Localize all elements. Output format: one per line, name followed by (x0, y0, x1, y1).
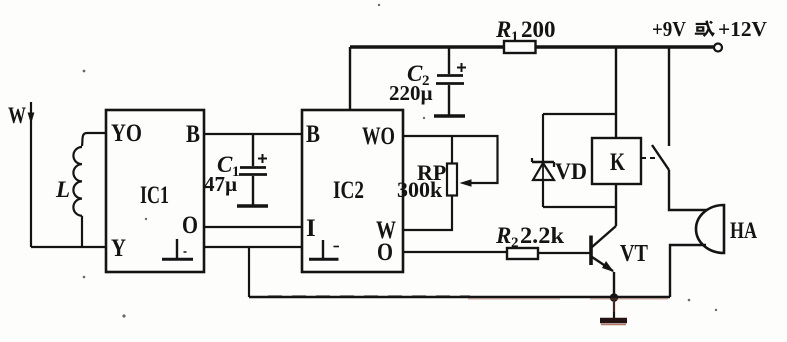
label IC2 pins (306, 121, 396, 266)
scan ghost above ground rail (268, 295, 470, 297)
wire: RP bottom to IC2 W pin (403, 196, 452, 230)
dashed link K to contact (641, 157, 658, 159)
scan specks (83, 4, 718, 318)
arrowhead on W input (28, 113, 35, 125)
relay coil K (592, 138, 641, 184)
wire: top +V rail (350, 45, 714, 48)
svg-text:47µ: 47µ (204, 172, 237, 196)
glyph: Chinese huo (or) (695, 21, 714, 36)
svg-text:Y: Y (111, 235, 126, 262)
wire: R2 to VT base (538, 252, 590, 254)
svg-text:L: L (55, 177, 70, 202)
svg-text:K: K (610, 149, 625, 176)
label R1 200 (495, 17, 556, 45)
wire: W line to Y pin (31, 246, 106, 248)
label L (55, 177, 70, 202)
potentiometer RP body (447, 164, 457, 196)
ground bar of C1 (237, 204, 268, 207)
svg-text:IC1: IC1 (140, 182, 169, 209)
capacitor C2 (436, 47, 464, 115)
svg-text:R: R (495, 223, 511, 248)
ground bar of C2 (434, 114, 465, 117)
svg-text:YO: YO (111, 120, 142, 147)
svg-text:R: R (495, 17, 511, 42)
ground (600, 297, 627, 325)
wire: IC1 O to IC2 I (204, 226, 302, 228)
terminal: +V supply (714, 44, 722, 52)
capacitor C1 (239, 134, 267, 205)
label W input (8, 103, 26, 128)
wire: K bottom to VT collector (615, 184, 617, 223)
ground pin symbol inside IC1 (162, 239, 193, 259)
scan tint on ground rail (468, 299, 668, 312)
svg-text:+12V: +12V (718, 17, 767, 41)
svg-text:200: 200 (521, 17, 556, 42)
wire: IC2 O to R2 (403, 251, 507, 253)
wire: rail down to IC2 top (349, 47, 351, 110)
polarity + of C1 (258, 154, 267, 163)
label C2 220u (389, 61, 433, 105)
wire: VD parallel loop top (543, 113, 616, 115)
svg-text:O: O (377, 239, 393, 266)
svg-text:2: 2 (511, 235, 519, 251)
svg-text:VD: VD (555, 159, 587, 184)
label RP 300k (397, 160, 446, 202)
label: +9V or +12V (652, 17, 767, 41)
svg-text:WO: WO (362, 123, 395, 150)
label K (610, 149, 625, 176)
svg-text:1: 1 (511, 29, 519, 45)
wire: HA bottom to ground rail (670, 245, 706, 297)
IC block IC1 (106, 110, 204, 272)
buzzer HA (696, 205, 724, 253)
transistor VT (591, 223, 616, 297)
inductor L (73, 133, 106, 247)
svg-text:B: B (186, 121, 200, 148)
svg-text:W: W (8, 103, 26, 128)
svg-text:220µ: 220µ (389, 81, 433, 105)
label C1 47u (204, 152, 240, 196)
svg-text:O: O (182, 212, 198, 239)
wire: IC2 WO output loop (403, 136, 498, 183)
wire: IC1 gnd to IC2 gnd (204, 246, 302, 248)
wire: rail down to relay contact (668, 47, 670, 146)
wire: rail down to relay K (615, 47, 617, 138)
polarity + of C2 (457, 63, 466, 72)
svg-text:300k: 300k (397, 177, 443, 202)
IC block IC2 (302, 110, 403, 272)
wire: bottom ground rail (249, 296, 670, 298)
label HA (730, 218, 757, 243)
wire: branch down to bottom rail (248, 247, 250, 297)
emitter arrowhead of VT (602, 261, 614, 272)
label IC1 pins (111, 120, 200, 262)
wire: VD parallel loop bottom (543, 206, 616, 208)
wire: contact down to HA (669, 170, 709, 210)
svg-text:2.2k: 2.2k (520, 223, 564, 248)
relay contact arm (652, 145, 669, 170)
svg-text:+9V: +9V (652, 17, 686, 41)
svg-text:IC2: IC2 (333, 177, 364, 204)
junction dot emitter-ground (610, 293, 619, 302)
label R2 2.2k (495, 223, 564, 251)
resistor R2 (507, 248, 538, 259)
wire: B to B between IC1 and IC2 (204, 133, 302, 135)
wire: RP top to WO wire (451, 136, 453, 163)
wiper arrow of RP (460, 179, 472, 187)
label VD (555, 159, 587, 184)
svg-text:VT: VT (620, 241, 648, 267)
diode VD (532, 114, 554, 207)
svg-text:HA: HA (730, 218, 757, 243)
label VT (620, 241, 648, 267)
svg-text:B: B (306, 121, 320, 148)
svg-text:I: I (306, 215, 316, 242)
resistor R1 (504, 41, 536, 53)
ground pin symbol inside IC2 (309, 240, 339, 259)
wire: antenna W with arrow (30, 102, 32, 247)
